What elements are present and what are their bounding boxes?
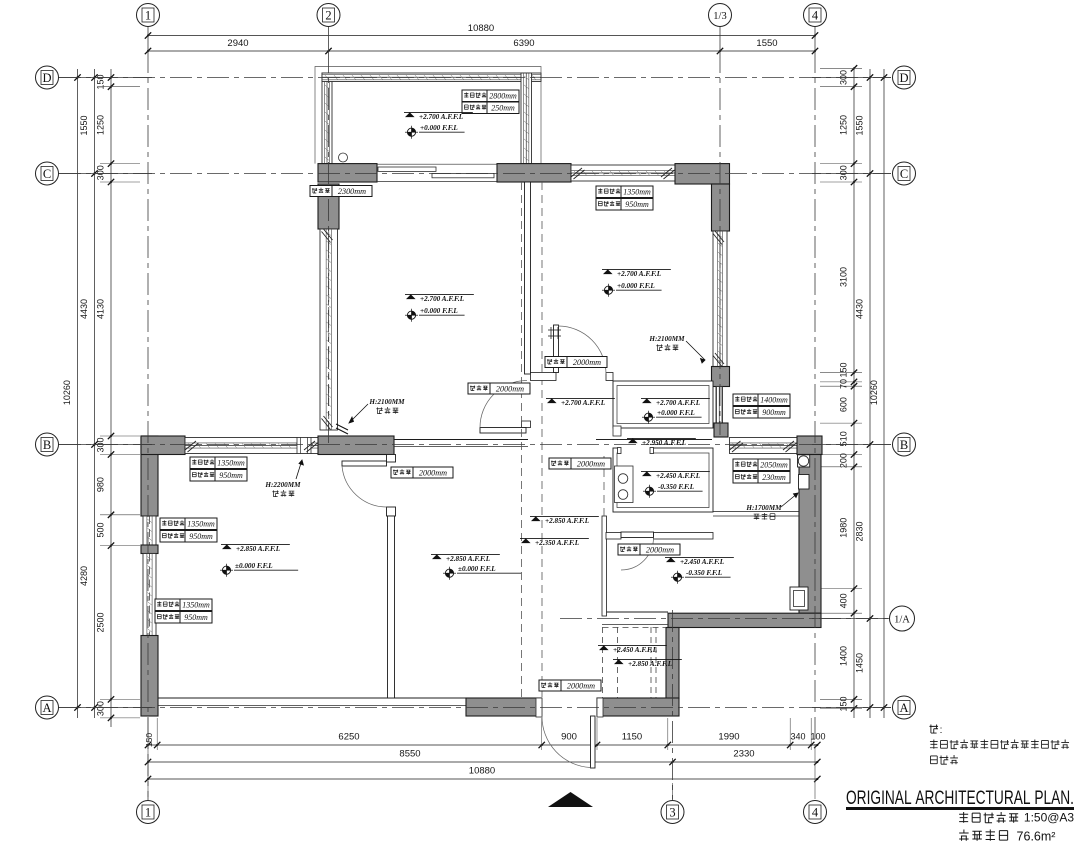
B wall west window label box xyxy=(190,457,215,469)
niche elevation marks xyxy=(598,644,667,646)
svg-text:+0.000 F.F.L: +0.000 F.F.L xyxy=(617,282,655,290)
area text xyxy=(959,830,968,841)
svg-text:1350mm: 1350mm xyxy=(182,601,210,610)
axis bubble D right xyxy=(893,66,916,89)
storage room elevation marks xyxy=(641,397,710,399)
svg-text:+2.950 A.F.F.L: +2.950 A.F.F.L xyxy=(642,439,687,447)
living room secondary elevation +2.850 xyxy=(530,515,599,517)
window on B wall west (1350mm) xyxy=(185,438,318,454)
kitchen door label xyxy=(549,458,571,469)
svg-text:+2.850 A.F.F.L: +2.850 A.F.F.L xyxy=(236,545,281,553)
bathroom door leaf xyxy=(621,532,654,538)
svg-text:1: 1 xyxy=(145,806,151,820)
west wall window lower (1350mm) xyxy=(143,554,156,636)
svg-text:1550: 1550 xyxy=(855,115,865,135)
axis bubble 1 top xyxy=(137,4,160,27)
svg-text:6390: 6390 xyxy=(513,38,534,49)
balcony eave outline xyxy=(315,67,541,164)
window on storage room east wall xyxy=(716,387,723,424)
kitchen door jamb left xyxy=(618,448,622,454)
svg-text:4280: 4280 xyxy=(79,566,89,586)
bedroom/living partition wall xyxy=(388,516,395,698)
partition door label xyxy=(391,467,413,478)
svg-text:C: C xyxy=(900,167,908,181)
svg-text:B: B xyxy=(43,438,51,452)
kitchen door jamb right xyxy=(650,448,654,454)
bedroom/living partition jamb top xyxy=(387,455,396,463)
svg-text:+2.700 A.F.F.L: +2.700 A.F.F.L xyxy=(419,113,464,121)
west wall lower window label box xyxy=(155,599,180,611)
entry door jamb left xyxy=(536,698,542,717)
NE bedroom door top hatch marks xyxy=(548,329,561,331)
svg-text:500: 500 xyxy=(96,522,106,537)
svg-text:1450: 1450 xyxy=(855,653,865,673)
svg-text:1400: 1400 xyxy=(839,646,849,666)
svg-text:2050mm: 2050mm xyxy=(760,461,788,470)
NE bedroom east window label box xyxy=(733,394,758,406)
B axis elevation mark +2.950 xyxy=(596,439,712,441)
svg-text:1:50@A3: 1:50@A3 xyxy=(1024,811,1075,825)
svg-text:+0.000 F.F.L: +0.000 F.F.L xyxy=(420,307,458,315)
kitchen elevation marks xyxy=(641,470,710,472)
thin double line along B east of partition xyxy=(394,439,528,441)
svg-text:+2.700 A.F.F.L: +2.700 A.F.F.L xyxy=(617,270,662,278)
svg-text:2830: 2830 xyxy=(855,521,865,541)
svg-text:B: B xyxy=(900,438,908,452)
B wall west corner block xyxy=(141,436,185,455)
window on east wall of NE bedroom xyxy=(713,231,727,367)
bathroom elevation marks xyxy=(665,556,734,558)
storage room walls xyxy=(613,381,713,428)
svg-text:950mm: 950mm xyxy=(219,471,243,480)
svg-text:950mm: 950mm xyxy=(184,613,208,622)
east wall of NE bedroom upper segment xyxy=(712,184,730,231)
grid line axis 4 (vertical) xyxy=(814,27,816,51)
svg-text:2330: 2330 xyxy=(733,749,754,760)
gas meter box in east wall xyxy=(799,475,810,490)
svg-text:300: 300 xyxy=(839,165,849,180)
bathroom door label xyxy=(618,544,640,555)
svg-text:200: 200 xyxy=(839,453,849,468)
NE bedroom elevation marks xyxy=(602,268,671,270)
svg-text:2000mm: 2000mm xyxy=(419,469,447,478)
entry direction triangle xyxy=(548,792,593,807)
svg-text:ORIGINAL ARCHITECTURAL PLAN.: ORIGINAL ARCHITECTURAL PLAN. xyxy=(846,787,1074,809)
dimension line top 2940/6390/1550 xyxy=(148,50,815,52)
west wall upper window label box xyxy=(160,518,185,530)
hall door arc xyxy=(480,381,527,428)
living room secondary elevation 2.350 xyxy=(520,537,589,539)
bedroom door arc xyxy=(342,466,387,507)
grid line axis A (horizontal) xyxy=(59,707,891,709)
svg-text:1980: 1980 xyxy=(839,518,849,538)
C wall window label box xyxy=(596,186,621,198)
svg-text:+2.700 A.F.F.L: +2.700 A.F.F.L xyxy=(656,399,701,407)
window end tick marks xyxy=(324,229,333,240)
svg-text:2000mm: 2000mm xyxy=(577,460,605,469)
svg-text:4130: 4130 xyxy=(96,299,106,319)
grid line axis 1/3 (vertical) xyxy=(719,27,721,51)
B wall right window label box xyxy=(733,459,758,471)
svg-text:H:2100MM: H:2100MM xyxy=(368,398,405,406)
svg-text:H:2200MM: H:2200MM xyxy=(264,481,301,489)
dashed line east of corridor wall xyxy=(541,182,543,697)
B wall gray segment west of partition door xyxy=(318,436,394,455)
entry door leaf xyxy=(591,716,596,768)
bathroom NE boundary lines xyxy=(713,511,799,513)
balcony window label box xyxy=(462,90,487,102)
entry door arc xyxy=(542,716,591,768)
bathroom west wall xyxy=(602,516,607,616)
axis solid segments near dimension rails xyxy=(59,77,152,79)
svg-text:H:2100MM: H:2100MM xyxy=(648,335,685,343)
left extension lines xyxy=(100,86,140,88)
svg-text:510: 510 xyxy=(839,431,849,446)
svg-text:3100: 3100 xyxy=(839,267,849,287)
svg-text:-0.350 F.F.L: -0.350 F.F.L xyxy=(686,569,723,577)
balcony floor drain xyxy=(339,153,348,162)
hall door leaf xyxy=(480,428,526,434)
svg-text:1990: 1990 xyxy=(718,732,739,743)
corridor west wall (double line) xyxy=(525,182,531,374)
bottom extension lines xyxy=(156,718,158,750)
svg-text:100: 100 xyxy=(810,732,825,742)
svg-text:950mm: 950mm xyxy=(189,532,213,541)
left dimension rail fine xyxy=(110,69,112,727)
axis bubble 1/3 top xyxy=(709,4,732,27)
svg-text:A: A xyxy=(899,701,908,715)
NE bedroom south wall west segment xyxy=(531,373,557,381)
svg-text:+2.450 A.F.F.L: +2.450 A.F.F.L xyxy=(656,472,701,480)
balcony west window wall xyxy=(322,73,332,164)
svg-text:600: 600 xyxy=(839,397,849,412)
window on C wall (1350mm) xyxy=(571,165,675,181)
wall C axis: segment between door and window xyxy=(497,164,571,182)
svg-text:+2.700 A.F.F.L: +2.700 A.F.F.L xyxy=(420,295,465,303)
svg-text:4: 4 xyxy=(812,806,819,820)
svg-text:H:1700MM: H:1700MM xyxy=(745,504,782,512)
grid line axis B (horizontal) xyxy=(59,444,891,446)
west outer wall: segment above A xyxy=(141,636,158,717)
axis bubble 3 bottom xyxy=(661,801,684,824)
svg-text:A: A xyxy=(42,701,51,715)
kitchen walls xyxy=(613,448,713,512)
svg-text:150: 150 xyxy=(839,362,849,377)
left dimension rail mid xyxy=(94,69,96,718)
sliding door panel 2 xyxy=(432,173,494,177)
NE bedroom south wall east segment xyxy=(606,373,613,381)
svg-text:10260: 10260 xyxy=(869,380,879,405)
A wall gray segment right of entry door xyxy=(597,698,679,716)
svg-text:150: 150 xyxy=(839,696,849,711)
axis bubble A right xyxy=(893,696,916,719)
NW bedroom west wall upper gray xyxy=(318,184,339,229)
svg-text:1350mm: 1350mm xyxy=(187,520,215,529)
bottom dimension row 8550/2330 xyxy=(148,761,817,763)
axis bubble C left xyxy=(36,162,59,185)
svg-text:+2.850 A.F.F.L: +2.850 A.F.F.L xyxy=(628,660,673,668)
B wall NE corner block xyxy=(797,436,822,455)
bathroom north wall west of door xyxy=(606,533,621,540)
svg-text:4: 4 xyxy=(812,9,819,23)
bathroom north wall east of door xyxy=(654,533,714,540)
east outer wall xyxy=(799,455,821,614)
axis bubble C right xyxy=(893,162,916,185)
window on B wall right of storage (2050mm) xyxy=(730,438,798,454)
svg-text:D: D xyxy=(42,71,51,85)
west wall window upper (1350mm) xyxy=(143,516,156,545)
bathroom floor drain xyxy=(790,587,808,610)
east wall of NE bedroom lower segment xyxy=(712,367,730,387)
svg-text:1350mm: 1350mm xyxy=(217,459,245,468)
svg-text:1: 1 xyxy=(145,9,151,23)
svg-text:250mm: 250mm xyxy=(491,104,515,113)
svg-text:1350mm: 1350mm xyxy=(623,188,651,197)
svg-text:+2.450 A.F.F.L: +2.450 A.F.F.L xyxy=(680,558,725,566)
AC hole hatch at window end xyxy=(336,424,348,430)
SW bedroom elevation marks xyxy=(221,543,290,545)
balcony north window wall xyxy=(322,73,541,82)
svg-text:150: 150 xyxy=(144,733,154,747)
svg-text:10880: 10880 xyxy=(469,766,495,777)
NW bedroom west window (long) xyxy=(320,229,338,430)
svg-text:70: 70 xyxy=(839,379,849,389)
kitchen door opening in north wall xyxy=(621,447,650,454)
svg-text:+2.850 A.F.F.L: +2.850 A.F.F.L xyxy=(446,555,491,563)
svg-text:230mm: 230mm xyxy=(762,473,786,482)
corridor dashed line west xyxy=(521,182,523,697)
right dimension rail outer 10260 xyxy=(883,69,885,718)
svg-text:150: 150 xyxy=(96,74,106,89)
svg-text:+0.000 F.F.L: +0.000 F.F.L xyxy=(657,409,695,417)
niche west wall (vertical) xyxy=(666,628,679,699)
svg-text:900mm: 900mm xyxy=(762,408,786,417)
svg-text:+2.450 A.F.F.L: +2.450 A.F.F.L xyxy=(613,646,658,654)
right extension lines xyxy=(820,67,862,69)
svg-text:4430: 4430 xyxy=(855,299,865,319)
svg-text:2800mm: 2800mm xyxy=(489,92,517,101)
NE bedroom door leaf xyxy=(554,325,559,373)
grid line axis 2 (vertical) xyxy=(328,27,330,51)
axis bubble A left xyxy=(36,696,59,719)
grid line axis 1 (vertical) xyxy=(147,27,149,51)
svg-text:1/A: 1/A xyxy=(894,614,910,625)
C wall door label xyxy=(310,186,332,197)
sliding door opening on C wall xyxy=(377,163,497,165)
left dimension rail outer 10260 xyxy=(77,69,79,718)
bedroom/living partition jamb below door xyxy=(387,507,396,516)
1/A south wall of bathroom xyxy=(668,613,821,627)
axis bubble D left xyxy=(36,66,59,89)
grid line axis C (horizontal) xyxy=(59,173,891,175)
svg-text::: : xyxy=(940,725,943,736)
east wall stub above B wall xyxy=(714,423,728,437)
hall elevation mark xyxy=(546,397,615,399)
svg-text:300: 300 xyxy=(96,165,106,180)
svg-text:±0.000 F.F.L: ±0.000 F.F.L xyxy=(235,562,273,570)
dimension line top total 10880 xyxy=(148,35,815,37)
svg-text:10260: 10260 xyxy=(62,380,72,405)
kitchen door frame mark in corridor xyxy=(613,426,621,436)
entry door jamb right xyxy=(597,698,603,717)
svg-text:1/3: 1/3 xyxy=(713,11,726,22)
west wall small pier xyxy=(141,545,158,554)
axis bubble B right xyxy=(893,433,916,456)
svg-text:+2.700 A.F.F.L: +2.700 A.F.F.L xyxy=(561,399,606,407)
svg-text:1150: 1150 xyxy=(622,732,642,743)
svg-text:+0.000 F.F.L: +0.000 F.F.L xyxy=(420,124,458,132)
dashed line at bathroom west above xyxy=(603,456,605,516)
svg-text:±0.000 F.F.L: ±0.000 F.F.L xyxy=(458,565,496,573)
svg-text:6250: 6250 xyxy=(338,732,359,743)
sink circle in NE corner xyxy=(798,456,808,466)
svg-text:2940: 2940 xyxy=(227,38,248,49)
svg-text:340: 340 xyxy=(790,732,805,742)
hall door label xyxy=(468,383,490,394)
wall C axis: east corner column xyxy=(675,164,730,184)
entry door label xyxy=(539,680,561,691)
note text right xyxy=(929,724,938,733)
grid line axis 1/A (horizontal) xyxy=(560,618,890,620)
axis bubble 4 top xyxy=(804,4,827,27)
A wall thin boundary (bedroom/living south edge) xyxy=(158,697,466,699)
wall C axis: corner block at axis2 xyxy=(318,164,377,182)
sliding door panel 1 xyxy=(378,167,436,171)
svg-text:1250: 1250 xyxy=(96,115,106,135)
svg-text:2000mm: 2000mm xyxy=(573,358,601,367)
axis bubble 4 bottom xyxy=(804,801,827,824)
svg-text:2000mm: 2000mm xyxy=(567,682,595,691)
svg-text:-0.350 F.F.L: -0.350 F.F.L xyxy=(658,483,695,491)
hall-corridor door jambs xyxy=(522,421,531,428)
stove burner 2 xyxy=(618,490,628,500)
svg-text:8550: 8550 xyxy=(399,749,420,760)
bathroom south edge thin lines xyxy=(602,611,668,613)
bottom dimension row 150/6250/900/1150/1990/340/100 xyxy=(148,744,817,746)
svg-text:3: 3 xyxy=(669,806,675,820)
balcony east window wall xyxy=(521,73,532,164)
bathroom door arc xyxy=(621,538,654,571)
axis bubble B left xyxy=(36,433,59,456)
svg-text:900: 900 xyxy=(561,732,577,743)
NE bedroom door label xyxy=(545,357,567,368)
stove burner 1 xyxy=(618,474,628,484)
svg-text:4430: 4430 xyxy=(79,299,89,319)
svg-text:76.6m²: 76.6m² xyxy=(1017,830,1056,844)
svg-text:400: 400 xyxy=(839,593,849,608)
svg-text:1550: 1550 xyxy=(756,38,777,49)
svg-text:2: 2 xyxy=(325,9,331,23)
svg-text:1250: 1250 xyxy=(839,115,849,135)
west outer wall: segment below B xyxy=(141,436,158,516)
grid line axis D (horizontal) xyxy=(59,77,891,79)
svg-text:950mm: 950mm xyxy=(625,200,649,209)
svg-text:300: 300 xyxy=(96,701,106,716)
AC hole mark in B wall window xyxy=(297,438,311,454)
svg-text:2300mm: 2300mm xyxy=(338,187,366,196)
NW bedroom elevation marks xyxy=(405,293,474,295)
bottom dimension row total 10880 xyxy=(148,778,817,780)
svg-text:+2.850 A.F.F.L: +2.850 A.F.F.L xyxy=(545,517,590,525)
living room elevation marks xyxy=(431,553,500,555)
stove counter in kitchen xyxy=(615,466,634,503)
svg-text:2500: 2500 xyxy=(96,612,106,632)
NE bedroom door arc xyxy=(559,326,607,374)
pass-through box in NE corner xyxy=(798,455,810,467)
svg-text:1550: 1550 xyxy=(79,115,89,135)
svg-text:1400mm: 1400mm xyxy=(760,396,788,405)
svg-text:+2.350 A.F.F.L: +2.350 A.F.F.L xyxy=(535,539,580,547)
A wall gray segment left of entry door xyxy=(466,698,542,716)
right dimension rail mid xyxy=(869,69,871,718)
shaft dashed lines in niche xyxy=(602,627,604,698)
axis bubble 1/A right xyxy=(890,606,915,631)
bedroom door leaf (partition door) xyxy=(342,461,387,466)
svg-text:C: C xyxy=(43,167,51,181)
svg-text:980: 980 xyxy=(96,477,106,492)
svg-text:2000mm: 2000mm xyxy=(646,546,674,555)
balcony elevation marks xyxy=(404,111,473,113)
svg-text:D: D xyxy=(899,71,908,85)
grid line axis 3 (vertical, bottom) xyxy=(672,610,674,800)
svg-text:10880: 10880 xyxy=(468,23,494,34)
svg-text:2000mm: 2000mm xyxy=(496,385,524,394)
axis bubble 1 bottom xyxy=(137,801,160,824)
right dimension rail fine xyxy=(853,69,855,718)
title chinese + scale xyxy=(959,812,968,823)
svg-text:300: 300 xyxy=(96,437,106,452)
axis bubble 2 top xyxy=(317,4,340,27)
